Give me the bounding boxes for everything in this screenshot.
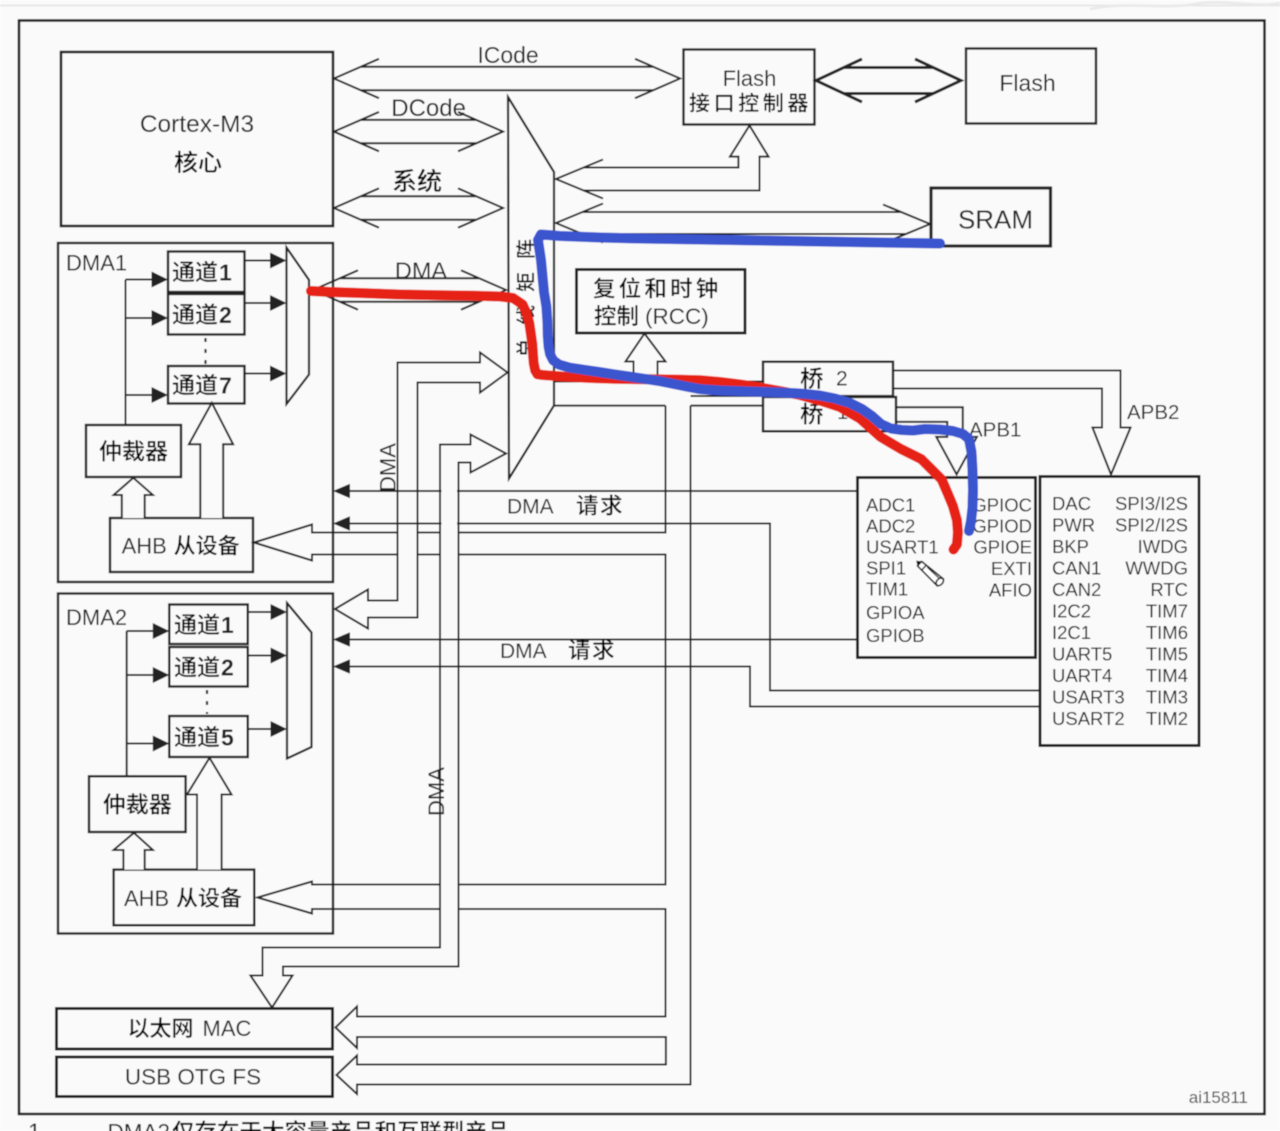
svg-text:AFIO: AFIO bbox=[989, 580, 1032, 601]
svg-text:GPIOD: GPIOD bbox=[972, 516, 1032, 537]
label DMA2 channel 1 bbox=[175, 612, 234, 638]
svg-text:PWR: PWR bbox=[1052, 515, 1095, 536]
svg-text:DMA: DMA bbox=[507, 496, 554, 519]
double arrow: DCode bus bbox=[334, 112, 503, 151]
svg-text:USART3: USART3 bbox=[1052, 687, 1125, 708]
svg-text:APB1: APB1 bbox=[969, 419, 1021, 442]
box Cortex-M3 core bbox=[61, 52, 333, 226]
svg-text:I2C1: I2C1 bbox=[1052, 622, 1091, 643]
double arrow: Flash interface to Flash bbox=[816, 59, 961, 102]
label DMA1 channel 2 bbox=[173, 302, 232, 328]
svg-text:UART5: UART5 bbox=[1052, 644, 1112, 665]
box DMA2 bbox=[58, 594, 333, 934]
svg-text:ICode: ICode bbox=[477, 42, 538, 68]
svg-text:USB OTG FS: USB OTG FS bbox=[125, 1065, 261, 1090]
block arrow: bridge 1 to APB1 peripherals bbox=[896, 407, 977, 474]
svg-text:TIM1: TIM1 bbox=[866, 579, 908, 600]
label DMA1 channel 7 bbox=[173, 372, 232, 398]
label bridge 2 bbox=[801, 367, 848, 390]
svg-text:RTC: RTC bbox=[1150, 579, 1188, 600]
faint top rule bbox=[0, 2, 1280, 9]
double arrow: ICode bus bbox=[334, 59, 680, 98]
svg-text:AHB: AHB bbox=[122, 533, 167, 558]
svg-text:GPIOA: GPIOA bbox=[866, 602, 925, 623]
svg-text:IWDG: IWDG bbox=[1138, 536, 1188, 557]
box SRAM bbox=[931, 188, 1051, 246]
mux trapezoid DMA1 bbox=[287, 248, 310, 405]
svg-text:2: 2 bbox=[219, 302, 232, 328]
svg-text:EXTI: EXTI bbox=[991, 558, 1032, 579]
wire gaps where request lines cross the Ethernet DMA channel bbox=[442, 488, 458, 528]
label DMA request lower bbox=[500, 639, 614, 663]
box USB OTG FS bbox=[57, 1057, 333, 1097]
wire: DMA2 channels to mux stubs bbox=[248, 612, 273, 729]
box DMA2 channel 2 bbox=[169, 647, 248, 687]
dotted line: DMA1 channels ellipsis bbox=[204, 338, 206, 364]
box APB1 peripherals DAC..TIM2 bbox=[1040, 477, 1199, 746]
svg-text:SPI3/I2S: SPI3/I2S bbox=[1115, 493, 1188, 514]
box DMA2 AHB slave bbox=[114, 870, 255, 926]
box Flash interface controller bbox=[684, 50, 815, 125]
box APB2 peripherals ADC1..GPIO bbox=[858, 478, 1036, 658]
svg-text:GPIOE: GPIOE bbox=[973, 537, 1032, 558]
label DMA1 arbiter bbox=[100, 440, 168, 461]
label system bus bbox=[393, 169, 441, 192]
svg-text:DMA: DMA bbox=[395, 258, 448, 284]
box Flash memory bbox=[966, 49, 1096, 124]
svg-text:I2C2: I2C2 bbox=[1052, 601, 1091, 622]
label DMA2 channel 5 bbox=[175, 724, 234, 750]
annotation: red marker stroke bbox=[311, 291, 958, 550]
wire: bus matrix to bridge 2 (lower) bbox=[691, 395, 764, 397]
svg-text:TIM5: TIM5 bbox=[1146, 644, 1188, 665]
svg-text:DMA2: DMA2 bbox=[66, 605, 127, 630]
svg-text:(RCC): (RCC) bbox=[645, 304, 709, 329]
box bridge 1 bbox=[763, 397, 896, 431]
svg-text:BKP: BKP bbox=[1052, 536, 1089, 557]
svg-text:WWDG: WWDG bbox=[1125, 558, 1188, 579]
svg-text:Cortex-M3: Cortex-M3 bbox=[140, 111, 254, 138]
box DMA1 bbox=[58, 243, 333, 582]
svg-text:DMA1: DMA1 bbox=[66, 251, 127, 276]
arrowheads: DMA2 arbiter bus into channels bbox=[153, 623, 170, 752]
pencil mouse cursor bbox=[913, 557, 945, 587]
box DMA1 channel 7 bbox=[168, 366, 245, 404]
arrowheads: DMA1 arbiter bus into channels bbox=[152, 272, 169, 404]
svg-text:APB2: APB2 bbox=[1127, 401, 1179, 424]
svg-text:2: 2 bbox=[836, 368, 848, 391]
svg-text:DMA: DMA bbox=[376, 443, 401, 492]
svg-text:AHB: AHB bbox=[124, 886, 169, 911]
svg-text:5: 5 bbox=[221, 724, 234, 750]
bus matrix trapezoid bbox=[508, 97, 554, 479]
svg-text:1: 1 bbox=[28, 1119, 41, 1131]
wire: bus matrix to bridge 2 (upper) bbox=[554, 381, 763, 383]
box RCC reset and clock control bbox=[577, 270, 746, 334]
box DMA1 AHB slave bbox=[110, 518, 253, 572]
box DMA1 channel 1 bbox=[168, 252, 245, 293]
svg-text:ADC1: ADC1 bbox=[866, 495, 915, 516]
dotted line: DMA2 channels ellipsis bbox=[206, 690, 208, 714]
svg-text:USART1: USART1 bbox=[866, 537, 939, 558]
svg-text:ADC2: ADC2 bbox=[866, 516, 915, 537]
svg-text:TIM2: TIM2 bbox=[1146, 708, 1188, 729]
caption footnote (clipped at bottom) bbox=[28, 1119, 508, 1131]
label DMA2 AHB slave bbox=[124, 886, 242, 911]
wire: DMA2 arbiter bus with stubs to channels bbox=[127, 631, 154, 776]
svg-text:CAN1: CAN1 bbox=[1052, 558, 1101, 579]
svg-text:Flash: Flash bbox=[723, 66, 777, 91]
label DMA vertical upper bbox=[376, 443, 401, 492]
block arrow: bus matrix to SRAM bbox=[556, 204, 930, 244]
mux trapezoid DMA2 bbox=[287, 603, 312, 759]
label DMA1 channel 1 bbox=[173, 259, 232, 285]
svg-text:DMA2: DMA2 bbox=[108, 1120, 171, 1131]
block arrow: DMA2 master port to bus matrix bbox=[335, 353, 508, 629]
block arrow: DMA1 AHB slave to channel 7 bbox=[189, 403, 233, 518]
wire: DMA request line to DMA1 (lower, from APB1 box) bbox=[349, 524, 1040, 691]
svg-text:GPIOB: GPIOB bbox=[866, 625, 925, 646]
svg-text:TIM3: TIM3 bbox=[1146, 687, 1188, 708]
svg-text:SPI2/I2S: SPI2/I2S bbox=[1115, 515, 1188, 536]
wire: DMA1 arbiter bus with stubs to channels bbox=[126, 280, 154, 426]
label DMA vertical lower bbox=[424, 767, 449, 816]
label DMA request upper bbox=[507, 495, 622, 519]
svg-text:1: 1 bbox=[221, 612, 234, 638]
svg-text:USART2: USART2 bbox=[1052, 708, 1125, 729]
box DMA2 channel 1 bbox=[169, 605, 248, 645]
block arrow tree: AHB system bus to DMA1/DMA2 AHB slaves, Ethernet MAC and USB OTG FS bbox=[254, 406, 691, 1094]
block arrow: Ethernet DMA to bus matrix bbox=[251, 435, 507, 1008]
wire: DMA1 channels to mux stubs bbox=[245, 261, 273, 374]
arrowheads: DMA request lines into DMA1 and DMA2 bbox=[333, 484, 350, 674]
block arrow: bus matrix to Flash interface controller bbox=[556, 126, 769, 199]
svg-text:UART4: UART4 bbox=[1052, 665, 1112, 686]
box bridge 2 bbox=[763, 362, 893, 396]
block arrow: DMA1 AHB slave to arbiter bbox=[114, 478, 153, 518]
wire: DMA request line to DMA2 (upper) bbox=[349, 639, 858, 641]
svg-text:SRAM: SRAM bbox=[958, 205, 1033, 235]
svg-text:1: 1 bbox=[219, 259, 232, 285]
wire: DMA request line to DMA1 (upper) bbox=[349, 490, 858, 492]
svg-text:DMA: DMA bbox=[424, 767, 449, 816]
box DMA1 channel 2 bbox=[168, 294, 245, 335]
label bus matrix (vertical) bbox=[516, 240, 535, 358]
wire: bus matrix to bridge 1 bbox=[554, 405, 763, 407]
svg-text:ai15811: ai15811 bbox=[1189, 1088, 1248, 1107]
label RCC bbox=[594, 277, 717, 329]
svg-text:TIM7: TIM7 bbox=[1146, 601, 1188, 622]
label DMA2 arbiter bbox=[103, 793, 171, 814]
svg-text:DCode: DCode bbox=[391, 95, 466, 122]
svg-text:Flash: Flash bbox=[999, 70, 1055, 96]
label DMA1 AHB slave bbox=[122, 533, 240, 558]
svg-text:7: 7 bbox=[219, 372, 232, 398]
svg-text:GPIOC: GPIOC bbox=[972, 495, 1032, 516]
label Flash interface controller bbox=[690, 66, 808, 112]
double arrow: DMA bus bbox=[313, 270, 506, 309]
box DMA2 channel 5 bbox=[169, 716, 248, 757]
svg-text:SPI1: SPI1 bbox=[866, 558, 906, 579]
box DMA1 arbiter bbox=[86, 425, 181, 477]
svg-text:DAC: DAC bbox=[1052, 493, 1091, 514]
svg-text:TIM6: TIM6 bbox=[1146, 622, 1188, 643]
svg-text:2: 2 bbox=[221, 655, 234, 681]
svg-text:DMA: DMA bbox=[500, 640, 547, 663]
double arrow: system bus bbox=[334, 188, 503, 227]
label Cortex-M3 core bbox=[140, 111, 254, 173]
arrowheads: DMA1 channels into mux bbox=[270, 253, 287, 382]
wire: DMA request line to DMA2 (lower, from APB1 box) bbox=[349, 667, 1040, 707]
block arrow: DMA2 AHB slave to channel 5 bbox=[187, 758, 232, 870]
svg-text:TIM4: TIM4 bbox=[1146, 665, 1188, 686]
label bridge 1 bbox=[801, 402, 849, 425]
block arrow: DMA2 AHB slave to arbiter bbox=[114, 833, 153, 870]
svg-text:CAN2: CAN2 bbox=[1052, 579, 1101, 600]
block arrow: bridge 2 to APB2 peripherals bbox=[893, 371, 1131, 475]
label DMA2 channel 2 bbox=[175, 655, 234, 681]
arrowheads: DMA2 channels into mux bbox=[271, 604, 288, 737]
svg-text:MAC: MAC bbox=[203, 1016, 252, 1041]
box DMA2 arbiter bbox=[89, 776, 186, 832]
annotation: blue marker stroke bbox=[538, 235, 973, 532]
block arrow: AHB to RCC bbox=[626, 334, 666, 383]
box Ethernet MAC bbox=[57, 1009, 333, 1050]
labels APB1 peripheral list bbox=[1052, 493, 1188, 729]
labels APB2 peripheral list bbox=[866, 495, 1032, 647]
label Ethernet MAC bbox=[129, 1016, 251, 1041]
